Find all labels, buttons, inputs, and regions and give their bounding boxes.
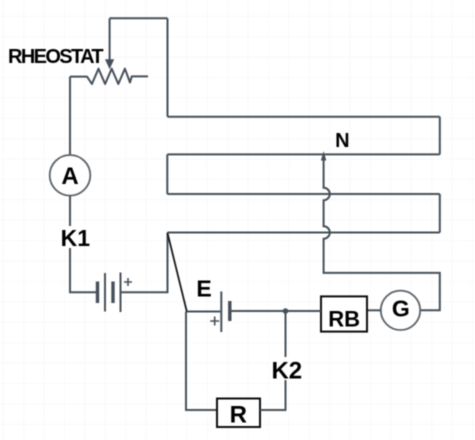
svg-text:A: A bbox=[61, 163, 78, 190]
battery B1 bbox=[98, 273, 133, 313]
svg-text:G: G bbox=[392, 296, 410, 322]
wire G to RB bbox=[367, 309, 381, 311]
potentiometer wire segment 4 bbox=[168, 232, 440, 234]
wire from wiper arrow top to right vertical bbox=[110, 17, 168, 19]
svg-text:R: R bbox=[230, 402, 247, 429]
potentiometer wire right fold 1 bbox=[439, 117, 441, 155]
junction node dot bbox=[283, 308, 289, 314]
rheostat R (zigzag resistor) bbox=[70, 69, 148, 84]
svg-text:RB: RB bbox=[328, 307, 360, 332]
rheostat wiper arrow stem bbox=[109, 18, 111, 59]
svg-text:RHEOSTAT: RHEOSTAT bbox=[8, 46, 103, 68]
jockey wire with hops down to galvanometer branch bbox=[324, 160, 440, 310]
potentiometer wire left fold bbox=[166, 154, 168, 194]
wire K2 branch left side down to R bbox=[186, 312, 217, 411]
galvanometer G bbox=[381, 291, 420, 330]
cell E bbox=[210, 292, 230, 333]
rheostat wiper arrowhead bbox=[105, 59, 114, 69]
svg-text:K2: K2 bbox=[271, 357, 302, 384]
svg-text:K1: K1 bbox=[61, 225, 91, 251]
potentiometer wire right fold 2 bbox=[439, 194, 441, 233]
wire RB to junction and cell E bbox=[231, 310, 321, 312]
svg-text:E: E bbox=[196, 276, 211, 302]
wire vertical down to potentiometer wire start bbox=[167, 18, 169, 116]
key K1 label bbox=[59, 225, 92, 251]
wire cell E to left junction bbox=[186, 311, 220, 313]
potentiometer wire segment 3 bbox=[167, 193, 440, 195]
resistor box R bbox=[217, 399, 260, 429]
ammeter A bbox=[50, 155, 91, 196]
wire battery B1 positive to node A of wire bbox=[122, 233, 168, 293]
key K2 label bbox=[269, 357, 304, 384]
wire ammeter to battery B1 (through K1 label) bbox=[70, 196, 97, 293]
diagonal wire from node A to cell E junction bbox=[168, 233, 187, 312]
resistance box RB bbox=[321, 296, 367, 331]
jockey arrowhead at N bbox=[321, 151, 326, 161]
svg-text:N: N bbox=[335, 130, 349, 152]
potentiometer wire segment 1 bbox=[168, 116, 440, 118]
wire R to K2 branch right side up to junction bbox=[260, 311, 286, 410]
wire rheostat left terminal down to ammeter bbox=[69, 77, 71, 155]
potentiometer wire segment 2 bbox=[167, 153, 440, 155]
